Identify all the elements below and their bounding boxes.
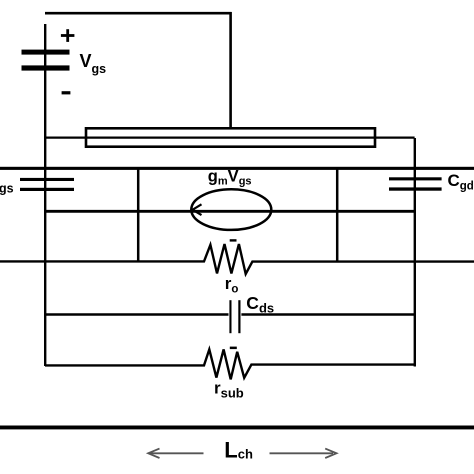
- voltage source Vgs plate bottom: [22, 65, 70, 70]
- gate plate rectangle: [86, 128, 375, 146]
- wire Cds row left: [45, 313, 229, 316]
- wire Cds row right: [241, 313, 414, 316]
- capacitor Cds plate right: [238, 300, 240, 333]
- dash above rsub: [230, 347, 237, 350]
- surface line: [0, 167, 474, 170]
- arrow left Lch: [150, 452, 204, 454]
- minus sign: [62, 91, 71, 94]
- svg-text:Cgd: Cgd: [448, 171, 474, 193]
- plus sign: [61, 34, 75, 37]
- capacitor Cgs plate top: [20, 178, 74, 181]
- substrate bottom line: [0, 426, 474, 430]
- wire right vertical drain: [414, 138, 416, 367]
- voltage source Vgs plate top: [22, 50, 70, 55]
- capacitor Cgd plate top: [389, 177, 442, 180]
- svg-text:ro: ro: [225, 274, 239, 296]
- resistor ro on bulk row: [0, 244, 474, 274]
- capacitor Cgd plate bottom: [389, 187, 442, 190]
- current source gmVgs ellipse: [191, 189, 271, 230]
- wire gate horizontal: [45, 136, 415, 138]
- wire top from Vgs+ to gate: [45, 12, 232, 15]
- wire inner vertical right: [336, 167, 339, 262]
- resistor rsub: [45, 349, 415, 379]
- arrowhead current source: [193, 204, 202, 215]
- svg-text:Lch: Lch: [224, 438, 253, 463]
- svg-text:gs: gs: [0, 181, 14, 195]
- arrow right Lch: [270, 452, 334, 454]
- wire battery left vertical: [44, 24, 46, 366]
- capacitor Cgs plate bottom: [20, 188, 74, 191]
- svg-text:rsub: rsub: [214, 379, 244, 401]
- wire vertical down to gate top: [229, 12, 232, 129]
- capacitor Cds plate left: [229, 300, 231, 333]
- svg-text:Vgs: Vgs: [80, 51, 107, 76]
- wire inner vertical left: [137, 167, 140, 262]
- svg-text:Cds: Cds: [246, 293, 274, 316]
- dash above ro: [230, 239, 237, 241]
- wire channel row: [45, 210, 415, 213]
- svg-text:gmVgs: gmVgs: [208, 167, 252, 187]
